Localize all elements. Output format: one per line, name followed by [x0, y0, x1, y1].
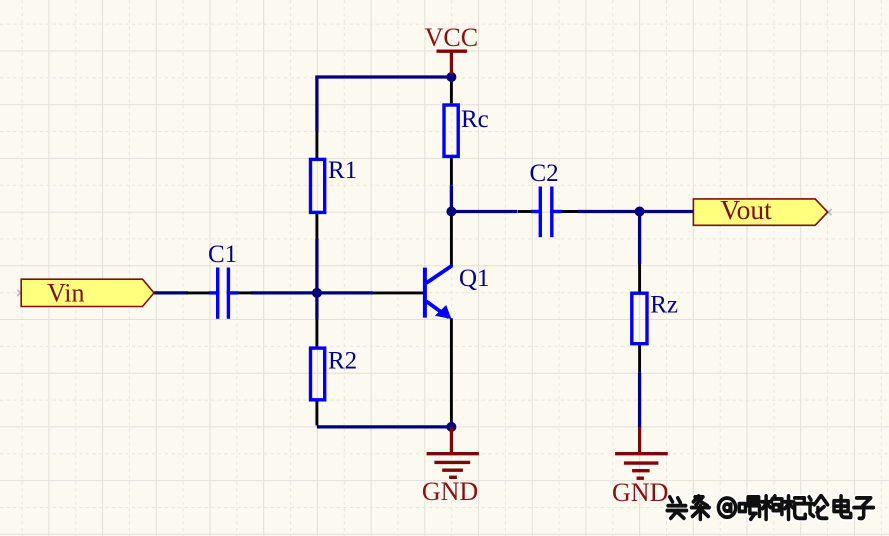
svg-text:Rc: Rc [461, 106, 489, 133]
svg-text:GND: GND [612, 478, 668, 507]
svg-text:Vout: Vout [720, 194, 772, 225]
svg-text:Q1: Q1 [459, 265, 490, 292]
svg-text:Vin: Vin [47, 279, 84, 308]
svg-text:C2: C2 [530, 160, 559, 187]
svg-text:GND: GND [422, 477, 478, 506]
svg-text:C1: C1 [208, 241, 237, 268]
svg-text:VCC: VCC [425, 23, 478, 52]
svg-text:R1: R1 [328, 157, 357, 184]
svg-text:Rz: Rz [650, 292, 678, 319]
svg-text:R2: R2 [328, 348, 357, 375]
